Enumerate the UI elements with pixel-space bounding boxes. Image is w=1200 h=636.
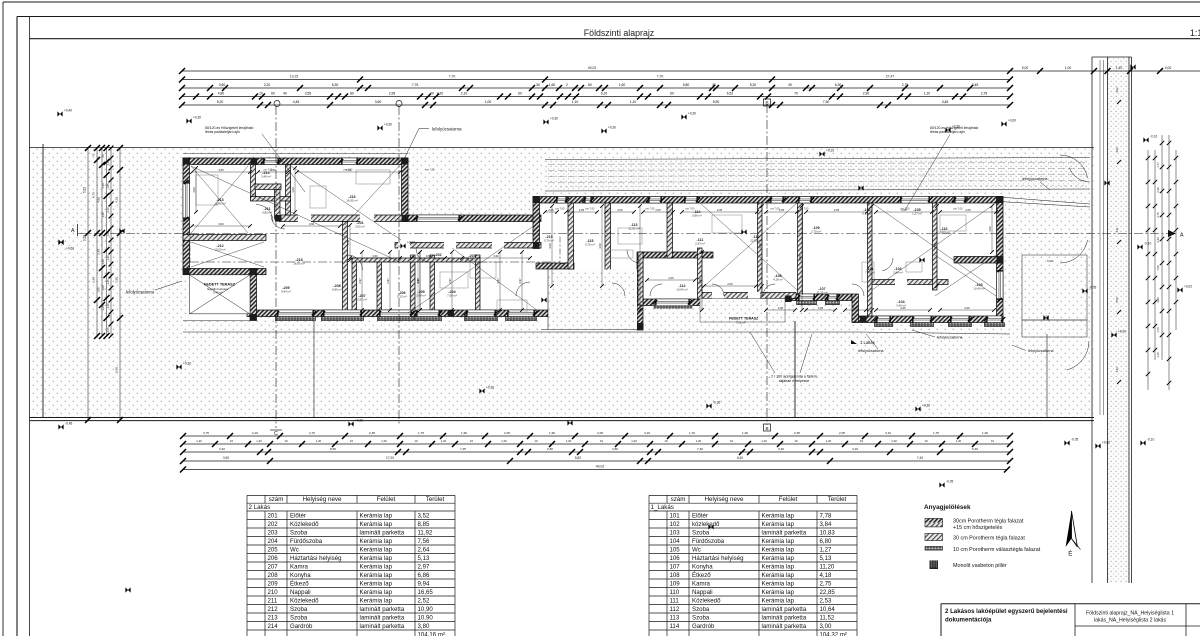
window: right unit east wall [997,270,1004,300]
svg-text:1,20: 1,20 [316,439,322,443]
dimension chain left vertical 6 [119,148,121,420]
svg-text:szám: szám [671,496,686,503]
door arc left unit 2 [271,215,285,229]
svg-text:Kerámia lap: Kerámia lap [360,580,393,587]
svg-text:2,30: 2,30 [1156,187,1160,193]
svg-text:203: 203 [268,529,279,536]
svg-text:1,90: 1,90 [461,431,467,435]
sheet outer border [3,1,1200,3]
ground line double [30,417,1095,419]
svg-text:2,80: 2,80 [547,447,553,451]
svg-text:-0,36: -0,36 [713,401,720,405]
svg-text:pm 7,60: pm 7,60 [901,208,910,211]
kitchen counter left unit [410,255,418,310]
interior dimension lines right unit [545,211,557,213]
eaves taper lines to street [999,197,1090,204]
svg-text:Monolit vasbeton pillér: Monolit vasbeton pillér [953,563,1007,569]
svg-text:+0,30: +0,30 [384,123,392,127]
legend swatch 2: 30cm wall [925,534,943,541]
door arc left unit 1 [256,205,273,222]
svg-text:Terület: Terület [426,496,445,503]
axis D vertical [398,106,400,425]
svg-text:5,90: 5,90 [713,100,720,104]
svg-text:104: 104 [670,538,681,545]
svg-text:2,97: 2,97 [418,563,430,570]
kitchen counter right unit [605,250,633,258]
legend swatch 1: 30cm wall + insulation [925,519,943,523]
svg-text:1,44: 1,44 [1115,367,1119,373]
dimension chain left vertical 1 [87,148,89,420]
svg-text:2,90: 2,90 [92,277,96,283]
interior wall: y197 between -214 and -211 [251,197,291,202]
svg-text:2,05: 2,05 [655,208,661,212]
svg-text:1,10: 1,10 [101,183,105,189]
svg-text:1,20: 1,20 [891,439,897,443]
svg-text:7,78 m²: 7,78 m² [865,271,875,275]
monolit vasbeton pillar markers [183,158,190,165]
svg-text:5,52: 5,52 [83,187,87,193]
svg-text:3,10: 3,10 [644,431,650,435]
interior wall: x667 [667,203,673,258]
svg-text:3,80: 3,80 [612,447,618,451]
dimension chain bottom line 4 [183,460,1010,462]
svg-text:10: 10 [414,439,418,443]
svg-text:Helyiség neve: Helyiség neve [705,496,744,503]
svg-text:2: 2 [566,83,568,87]
svg-text:Szoba: Szoba [692,606,710,613]
svg-text:+0,30: +0,30 [183,362,191,366]
svg-text:3,45: 3,45 [942,100,949,104]
svg-text:A: A [1180,233,1184,239]
svg-text:Földszinti alaprajz: Földszinti alaprajz [584,28,654,38]
furniture nappali [470,262,496,278]
svg-text:10,90: 10,90 [418,606,434,613]
svg-text:B: B [765,426,768,431]
svg-text:2,05: 2,05 [779,208,785,212]
svg-text:Nappali: Nappali [692,589,713,596]
svg-text:2,97: 2,97 [496,278,500,284]
wall: step wall x852 [852,294,859,322]
svg-text:5,13: 5,13 [820,555,832,562]
svg-text:11,20: 11,20 [820,563,835,570]
window: wing north wall [416,215,460,222]
svg-text:1,40: 1,40 [1116,66,1123,70]
svg-text:2,75: 2,75 [1156,212,1160,218]
svg-text:1,40: 1,40 [106,255,110,261]
svg-text:7,78: 7,78 [820,512,832,519]
svg-text:9,94 m²: 9,94 m² [281,290,291,294]
svg-text:2,75: 2,75 [820,580,832,587]
svg-text:5,82: 5,82 [575,456,581,460]
svg-text:laminált parketta: laminált parketta [360,623,405,630]
svg-text:0,80 m²: 0,80 m² [262,211,272,215]
svg-text:108: 108 [670,572,681,579]
svg-text:8,85: 8,85 [418,521,430,528]
windows: right unit north wall [556,197,567,204]
svg-text:3,84 m²: 3,84 m² [893,271,903,275]
window: left unit north wall 1 [263,158,279,165]
wall: room -212 south wall [183,269,266,275]
svg-text:49,02: 49,02 [588,66,597,70]
svg-text:6,40: 6,40 [737,456,743,460]
interior wall: x870 [868,203,873,316]
wall: unit1 -215 south wall [536,263,574,269]
svg-text:10,90: 10,90 [418,614,434,621]
interior wall: x605 [605,203,611,272]
svg-text:1,20: 1,20 [501,439,507,443]
svg-text:3,10: 3,10 [106,207,110,213]
svg-text:206: 206 [268,555,279,562]
right mid vertical dims near strip [1099,60,1101,415]
svg-text:1,70: 1,70 [689,431,695,435]
interior wall: x277 upper [275,184,281,219]
svg-text:1,77: 1,77 [1156,162,1160,168]
svg-text:1,30: 1,30 [101,259,105,265]
svg-text:11,02 m²: 11,02 m² [628,227,639,231]
svg-text:1,20: 1,20 [106,303,110,309]
svg-text:10: 10 [230,439,234,443]
drip line below south wall [183,331,860,333]
mini dim chains unit2 bottom rooms [361,252,363,310]
svg-text:16,65: 16,65 [418,589,434,596]
svg-text:70: 70 [430,92,434,96]
svg-text:1,70: 1,70 [1156,327,1160,333]
svg-text:lefolyócsatorna: lefolyócsatorna [432,127,462,132]
svg-text:2,05: 2,05 [668,276,674,280]
svg-text:6,52: 6,52 [727,92,734,96]
interior wall: left unit middle horizontal (right part) [279,215,402,222]
svg-text:2,05: 2,05 [818,306,824,310]
svg-text:Háztartási helyiség: Háztartási helyiség [290,555,341,562]
svg-text:10: 10 [534,439,538,443]
svg-text:1,45: 1,45 [101,212,105,218]
svg-text:5,20: 5,20 [217,100,224,104]
svg-text:laminált parketta: laminált parketta [762,623,807,630]
svg-text:Wc: Wc [290,546,299,553]
svg-text:1,20: 1,20 [381,439,387,443]
svg-text:pm 7,60: pm 7,60 [771,208,780,211]
svg-text:3,50: 3,50 [291,187,295,193]
svg-text:7,50: 7,50 [1156,265,1160,271]
svg-text:1,90: 1,90 [742,431,748,435]
svg-text:Kerámia lap: Kerámia lap [762,521,795,528]
svg-text:7,75: 7,75 [412,83,419,87]
svg-text:3,50: 3,50 [798,255,802,261]
svg-text:3,00: 3,00 [820,623,832,630]
svg-text:2,97: 2,97 [448,278,452,284]
svg-text:5,43 m²: 5,43 m² [213,290,223,294]
door opening left mid wall 1 [298,215,311,223]
svg-text:4,00: 4,00 [1165,66,1172,70]
svg-text:10: 10 [284,439,288,443]
dimension chain left vertical 2 [96,148,98,336]
svg-text:3,75: 3,75 [203,431,209,435]
dimension chain top line 2 [182,79,1010,81]
svg-text:3,60: 3,60 [218,222,224,226]
svg-text:-0,10: -0,10 [1150,135,1157,139]
svg-text:3,50: 3,50 [115,277,119,283]
svg-text:201: 201 [268,512,279,519]
svg-text:2,75: 2,75 [981,92,988,96]
diagonal lines room -212 [191,242,264,267]
dimension chain top line 1 (overall 49,02) [182,70,1200,72]
wall: middle wing north wall [402,215,541,222]
svg-text:Kerámia lap: Kerámia lap [360,512,393,519]
svg-text:3,10: 3,10 [885,431,891,435]
interior wall: x288 [286,165,291,216]
window in -112 south wall [655,299,690,306]
interior partitions unit2 bottom row [352,258,357,310]
svg-text:5,00: 5,00 [1047,259,1053,263]
svg-text:60: 60 [670,92,674,96]
svg-text:Előtér: Előtér [290,512,306,519]
svg-text:Kamra: Kamra [290,563,309,570]
svg-text:5,13 m²: 5,13 m² [862,212,872,216]
interior wall: unit2 corridor north wall [395,243,541,249]
svg-text:2,75 m²: 2,75 m² [811,230,821,234]
svg-text:3,50: 3,50 [698,278,702,284]
wall: left unit west wall [183,158,190,271]
svg-text:lakás_NA_Helyiséglista 2 lakás: lakás_NA_Helyiséglista 2 lakás [1094,618,1166,624]
svg-text:laminált parketta: laminált parketta [360,529,405,536]
svg-text:10: 10 [664,439,668,443]
svg-text:3,46 m²: 3,46 m² [896,304,906,308]
svg-text:7,40: 7,40 [917,456,923,460]
interior wall: unit2 rooms north boundary [352,258,480,262]
svg-text:2,20: 2,20 [264,83,271,87]
svg-text:1,60: 1,60 [549,83,556,87]
svg-text:7,56 m²: 7,56 m² [447,294,457,298]
interior wall: x800 [798,203,803,294]
svg-text:7,30: 7,30 [823,100,830,104]
svg-text:20: 20 [101,154,105,157]
svg-text:30 cm Porotherm tégla falazat: 30 cm Porotherm tégla falazat [953,535,1025,541]
furniture -113 bed [618,228,642,244]
svg-text:30: 30 [712,83,716,87]
svg-text:10: 10 [794,439,798,443]
sheet inner frame [17,16,1200,18]
wall: unit1 south wall piece x643-713 upper [643,252,713,258]
svg-text:3,86 m²: 3,86 m² [692,214,702,218]
wall: building south wall right segment east [852,316,1003,323]
svg-text:212: 212 [268,606,279,613]
svg-text:Kerámia lap: Kerámia lap [762,572,795,579]
diagonal lines room -103 [935,255,996,296]
title underline [30,38,1200,40]
svg-text:5,76 m²: 5,76 m² [585,243,595,247]
axis B vertical [766,104,768,425]
svg-text:Kerámia lap: Kerámia lap [360,563,393,570]
svg-text:laminált parketta: laminált parketta [762,614,807,621]
svg-text:3,60: 3,60 [218,168,224,172]
svg-text:1,60: 1,60 [619,83,626,87]
svg-text:lefolyócsatorna: lefolyócsatorna [858,349,884,353]
svg-text:Kerámia lap: Kerámia lap [762,597,795,604]
south wall window sills raised segment [798,294,815,301]
svg-text:pm 7,60: pm 7,60 [646,208,655,211]
svg-text:27,47: 27,47 [886,75,895,79]
svg-text:80: 80 [350,92,354,96]
svg-text:11,92: 11,92 [418,529,433,536]
svg-text:2,35: 2,35 [794,431,800,435]
door arc kitchen [348,255,363,270]
svg-text:+0,40: +0,40 [64,109,72,113]
svg-text:3,50: 3,50 [933,243,937,249]
stipple top boundary line [30,147,1095,149]
building footprint (white fill) [183,158,1003,330]
svg-text:10,83: 10,83 [820,529,836,536]
terrace recess between units (stipple) [548,270,637,330]
svg-text:2,97: 2,97 [518,278,522,284]
svg-text:207: 207 [268,563,279,570]
svg-text:6,75: 6,75 [92,192,96,198]
svg-text:pm 7,60: pm 7,60 [426,169,435,172]
svg-text:3,80: 3,80 [1156,297,1160,303]
interior wall: unit1 corridor wall west part [700,293,796,299]
svg-text:17,20: 17,20 [386,456,394,460]
svg-text:9,94: 9,94 [418,580,430,587]
svg-text:-0,10: -0,10 [1147,438,1154,442]
svg-text:-0,45: -0,45 [65,422,72,426]
svg-text:Közlekedő: Közlekedő [290,597,319,604]
svg-text:+15 cm hőszigetelés: +15 cm hőszigetelés [953,525,1003,531]
dimension chain left vertical 3 [101,148,103,336]
svg-text:8,50: 8,50 [330,447,336,451]
svg-text:3,46 m²: 3,46 m² [261,175,271,179]
svg-text:30cm Porotherm tégla falazat: 30cm Porotherm tégla falazat [953,518,1024,524]
svg-text:7,70: 7,70 [657,75,664,79]
svg-text:3,60: 3,60 [375,100,382,104]
wall: rooms -112 south wall [637,299,713,306]
svg-text:109: 109 [670,580,681,587]
window: west wall window [183,182,190,219]
svg-text:13,60 m²: 13,60 m² [214,248,225,252]
svg-text:5,30: 5,30 [750,83,757,87]
svg-text:3,50: 3,50 [548,243,552,249]
elevation marker +0,60 [58,240,63,245]
svg-text:2,35: 2,35 [369,431,375,435]
interior wall: x345 lower [343,222,348,315]
svg-text:5,13: 5,13 [418,555,430,562]
svg-text:6,10: 6,10 [601,92,608,96]
svg-text:A: A [71,228,75,234]
north arrow [1066,511,1072,547]
svg-text:Kerámia lap: Kerámia lap [360,572,393,579]
svg-text:7,05 m²: 7,05 m² [736,320,746,324]
svg-text:Konyha: Konyha [692,563,713,570]
dimension chain top line 3 [182,87,1010,89]
svg-text:202: 202 [268,521,279,528]
svg-text:3,52 m²: 3,52 m² [355,225,365,229]
svg-text:Kerámia lap: Kerámia lap [360,597,393,604]
site ground stipple area [31,148,1094,419]
furniture bedroom left [196,175,218,205]
svg-text:10: 10 [600,439,604,443]
svg-text:111: 111 [670,597,680,604]
svg-text:6,80: 6,80 [820,538,832,545]
dimension chain top line 4 [182,96,1010,98]
svg-text:210: 210 [268,589,279,596]
svg-text:Kamra: Kamra [692,580,711,587]
svg-text:Wc: Wc [692,546,701,553]
svg-text:2,05: 2,05 [579,208,585,212]
svg-text:É: É [1068,551,1072,558]
room schedule table 2 Lakas [247,494,455,496]
svg-text:3,60: 3,60 [493,254,499,258]
svg-text:laminált parketta: laminált parketta [762,606,807,613]
svg-text:1,20: 1,20 [196,439,202,443]
svg-text:+0,00: +0,00 [1118,330,1126,334]
furniture right living [712,215,742,233]
svg-text:2,05: 2,05 [727,282,733,286]
svg-text:1,00: 1,00 [485,100,492,104]
svg-text:40: 40 [283,92,287,96]
drawing area border [29,17,31,636]
svg-text:104,16 m²: 104,16 m² [418,631,445,636]
offset line above building [183,153,408,155]
svg-text:+0,30: +0,30 [550,117,558,121]
svg-text:3,40: 3,40 [778,447,784,451]
svg-text:4,31: 4,31 [1115,227,1119,233]
svg-text:5,50: 5,50 [1115,297,1119,303]
svg-text:4,80: 4,80 [218,92,225,96]
dimension chain left vertical 4 [106,148,108,336]
svg-text:1,05: 1,05 [106,327,110,333]
svg-text:9,50: 9,50 [83,235,87,241]
svg-text:2,64 m²: 2,64 m² [416,294,426,298]
svg-text:+0,00: +0,00 [1008,119,1016,123]
svg-text:2,53 m²: 2,53 m² [695,242,705,246]
svg-text:208: 208 [268,572,279,579]
svg-text:Konyha: Konyha [290,572,311,579]
svg-text:3,55: 3,55 [305,92,312,96]
svg-text:112: 112 [670,606,680,613]
svg-text:1,85: 1,85 [106,183,110,189]
svg-text:Kerámia lap: Kerámia lap [762,546,795,553]
legend swatch 3: 10cm partition [925,547,943,551]
svg-text:11,20 m²: 11,20 m² [816,291,827,295]
svg-text:11,52: 11,52 [820,614,835,621]
svg-text:Földszinti alaprajz_NA_Helyisé: Földszinti alaprajz_NA_Helyiséglista 1 [1086,611,1174,617]
door arcs right unit top [560,250,574,264]
svg-text:+0,30: +0,30 [355,419,363,423]
svg-text:-0,05: -0,05 [946,480,953,484]
dimension chain bottom line 5 [183,469,1007,471]
wall: building south wall x785-852 raised [785,294,852,301]
long diagonal through left unit [191,166,400,262]
svg-text:6,86: 6,86 [418,572,430,579]
svg-text:dokumentációja: dokumentációja [945,617,992,624]
svg-text:Előtér: Előtér [692,512,708,519]
svg-text:Anyagjelölések: Anyagjelölések [924,504,971,511]
dimension chain top line 5 [182,104,1010,106]
svg-text:10: 10 [860,439,864,443]
svg-text:2,97: 2,97 [416,278,420,284]
svg-text:Terület: Terület [828,496,847,503]
svg-text:pm 7,60: pm 7,60 [800,208,809,211]
wall: terrace east wall [250,269,257,321]
svg-text:létrás padlásfeljáró ajtó: létrás padlásfeljáró ajtó [205,130,240,134]
svg-text:Szoba: Szoba [290,614,308,621]
svg-text:2,64: 2,64 [418,546,430,553]
svg-text:-0,10: -0,10 [1144,242,1151,246]
svg-text:1,20: 1,20 [631,439,637,443]
svg-text:1,10: 1,10 [106,160,110,166]
svg-text:10: 10 [730,439,734,443]
svg-text:Kerámia lap: Kerámia lap [762,580,795,587]
svg-text:Étkező: Étkező [290,580,309,587]
svg-text:2,05: 2,05 [778,306,784,310]
